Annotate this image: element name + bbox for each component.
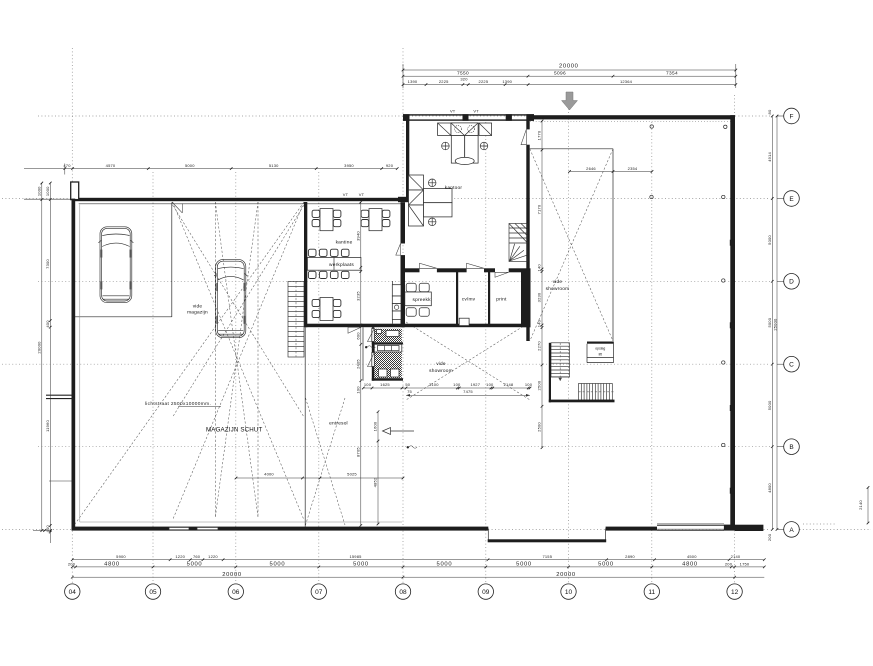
wall kantoor bottom with door openings [402, 268, 531, 272]
svg-text:470: 470 [63, 163, 71, 168]
dimension 2646 2354 kantoor [568, 166, 653, 173]
svg-text:2225: 2225 [439, 79, 449, 84]
svg-text:5000: 5000 [353, 562, 369, 568]
svg-text:4800: 4800 [767, 483, 772, 493]
svg-text:1927: 1927 [470, 382, 480, 387]
svg-text:7300: 7300 [45, 259, 50, 269]
door swing kantoor 2 [467, 263, 484, 268]
bottom dim row 1 small segments [71, 554, 766, 561]
door swing kantoor 1 [420, 263, 437, 268]
dim 75 7475 [406, 389, 530, 397]
svg-text:200: 200 [68, 561, 76, 566]
svg-text:4852: 4852 [373, 477, 378, 487]
bottom dim row 3 20000s [71, 572, 764, 579]
wall spreek right divider [456, 272, 458, 327]
svg-text:15985: 15985 [349, 554, 362, 559]
svg-text:10: 10 [565, 589, 573, 596]
wall showroom bottom east corner [724, 525, 735, 531]
svg-text:MAGAZIJN SCHUT: MAGAZIJN SCHUT [206, 426, 262, 433]
grid line 07 vertical [318, 172, 320, 583]
bottom dim row 2 5000s [68, 561, 766, 568]
svg-text:7354: 7354 [666, 71, 678, 77]
svg-text:werkplaats: werkplaats [329, 262, 354, 268]
vertical dim x378 entresol [373, 410, 380, 525]
svg-text:3100: 3100 [429, 382, 439, 387]
label vide showroom lower [429, 361, 453, 374]
svg-text:A: A [789, 527, 794, 534]
svg-text:vide: vide [436, 361, 446, 367]
toilet door swing 1 [368, 329, 375, 342]
svg-text:4800: 4800 [104, 562, 120, 568]
svg-text:1000: 1000 [37, 186, 42, 196]
svg-text:100: 100 [486, 382, 494, 387]
entresol right thin wall [362, 327, 364, 381]
wall kantoor jog at E [398, 197, 409, 202]
svg-text:4570: 4570 [106, 163, 116, 168]
spiral stair kantoor [509, 224, 528, 262]
kantoor desk cluster top [438, 123, 492, 165]
lichtstraat dashed outline and diagonals [215, 202, 258, 517]
vide magazijn diagonals [173, 202, 304, 520]
svg-text:760: 760 [193, 554, 201, 559]
svg-text:lift: lift [599, 353, 602, 357]
svg-text:VT: VT [359, 192, 365, 197]
svg-text:2270: 2270 [537, 341, 542, 351]
magazijn corner diagonal [75, 202, 304, 524]
svg-text:2500: 2500 [537, 422, 542, 432]
svg-text:showroom: showroom [429, 368, 453, 374]
svg-text:5000: 5000 [598, 562, 614, 568]
wall kantine left [304, 202, 307, 327]
vide magazijn rectangle [75, 203, 172, 318]
vertical dim chain x361 kantine/toilets [356, 201, 363, 527]
right vertical dimension chain [767, 109, 774, 541]
svg-text:VT: VT [473, 109, 479, 114]
svg-text:400: 400 [45, 525, 50, 533]
left 20000 dimension [37, 182, 43, 532]
svg-text:1750: 1750 [740, 561, 750, 566]
svg-text:2354: 2354 [628, 166, 638, 171]
svg-text:5096: 5096 [554, 71, 566, 77]
dim row toilets/showroom widths [362, 382, 533, 390]
wall kantoor left upper [406, 115, 409, 199]
svg-text:F: F [790, 113, 794, 120]
svg-text:C: C [789, 362, 794, 369]
stair magazijn-entresol [288, 282, 304, 358]
dimension row 1390 2225 ... 12364 [402, 77, 737, 86]
svg-text:entresol: entresol [329, 421, 348, 427]
wall showroom top [530, 115, 735, 119]
toilet fixtures upper [377, 330, 400, 337]
grid bubble D [784, 274, 800, 290]
svg-text:5130: 5130 [269, 163, 279, 168]
wall magazijn top [72, 198, 404, 201]
grid line B horizontal [38, 446, 784, 448]
svg-text:140: 140 [537, 264, 542, 272]
svg-text:E: E [789, 196, 794, 203]
wall print left divider [488, 272, 490, 327]
svg-text:50: 50 [405, 382, 410, 387]
svg-text:5000: 5000 [437, 562, 453, 568]
svg-text:12364: 12364 [620, 79, 633, 84]
grid line A horizontal [2, 528, 871, 530]
grid bubble 04 [65, 584, 80, 599]
svg-text:vide: vide [553, 279, 563, 285]
svg-text:2140: 2140 [858, 500, 863, 510]
low left wall jog [46, 395, 74, 481]
car van 2 in magazijn [214, 260, 247, 338]
svg-text:vide: vide [193, 304, 203, 310]
kantine table 1 with chairs [312, 209, 341, 231]
svg-text:kantine: kantine [336, 240, 353, 246]
svg-text:2148: 2148 [504, 382, 514, 387]
svg-text:80: 80 [767, 109, 772, 114]
grid line D horizontal [38, 280, 784, 282]
svg-text:3950: 3950 [344, 163, 354, 168]
svg-text:1390: 1390 [408, 79, 418, 84]
toilet door swing 2 [368, 353, 375, 367]
grid line 10 vertical [568, 95, 570, 583]
svg-text:4914: 4914 [767, 151, 772, 161]
svg-text:5000: 5000 [767, 400, 772, 410]
svg-text:200: 200 [767, 533, 772, 541]
svg-text:2890: 2890 [625, 554, 635, 559]
wall magazijn bottom [72, 527, 404, 531]
bottom left small ticks [33, 529, 52, 532]
svg-text:B: B [789, 444, 793, 451]
svg-text:07: 07 [315, 589, 323, 596]
grid line 09 vertical [485, 122, 487, 583]
magazijn top wall inner line [79, 203, 401, 205]
door swing kantine south [348, 327, 361, 333]
grid bubble A [784, 522, 800, 538]
entresol stair upper (vertical) [551, 343, 570, 381]
grid line 12 vertical [734, 95, 736, 583]
entresol diagonals [306, 398, 346, 525]
grid bubble 08 [395, 584, 410, 599]
svg-text:1625: 1625 [380, 382, 390, 387]
kantine table 2 with chairs [361, 209, 390, 231]
wall showroom bottom west segment [403, 527, 488, 531]
wall extension right of grid 12 [735, 525, 763, 531]
svg-text:2646: 2646 [586, 166, 596, 171]
grid line 11 vertical [651, 122, 653, 583]
svg-text:4500: 4500 [687, 554, 697, 559]
svg-text:print: print [496, 297, 507, 303]
svg-text:5000: 5000 [185, 163, 195, 168]
wall corridor south (kantine/spreek bottom) [304, 324, 531, 328]
svg-text:100: 100 [525, 382, 533, 387]
svg-text:kantoor: kantoor [445, 185, 463, 191]
right 25000 dimension [773, 115, 779, 531]
kantine table 3 with chairs [312, 298, 341, 321]
dimension 20000 top [402, 64, 737, 89]
label vide showroom upper [546, 279, 570, 292]
svg-text:3230: 3230 [537, 292, 542, 302]
svg-text:1000: 1000 [45, 186, 50, 196]
svg-text:11: 11 [648, 589, 655, 596]
svg-text:100: 100 [364, 382, 372, 387]
drain squiggle 1 [365, 346, 375, 349]
stair walls L-shape [549, 343, 615, 403]
toilet counter middle [374, 344, 402, 352]
door swing showroom entry [521, 129, 526, 144]
toilet block walls [372, 327, 403, 381]
wall chunk between print and showroom [521, 272, 531, 328]
grid line 06 vertical [235, 172, 237, 583]
kantoor top wall posts [403, 114, 534, 121]
svg-text:11960: 11960 [45, 420, 50, 432]
entrance block arrow gray [562, 92, 578, 110]
showroom bottom window band [657, 524, 724, 531]
svg-text:5000: 5000 [187, 562, 203, 568]
door swing in magazijn top wall [172, 202, 182, 213]
svg-text:3235: 3235 [356, 291, 361, 301]
werkplaats long table with chairs [307, 249, 361, 278]
svg-text:4000: 4000 [264, 472, 274, 477]
svg-text:5000: 5000 [767, 317, 772, 327]
grid line E horizontal [2, 198, 784, 200]
vide showroom upper diagonals [530, 149, 613, 341]
entrance recess walls [488, 529, 607, 543]
grid line C horizontal [2, 363, 784, 365]
grid bubble B [784, 439, 800, 455]
grid bubble F [784, 108, 800, 124]
svg-text:5000: 5000 [270, 562, 286, 568]
svg-text:2140: 2140 [731, 554, 741, 559]
door swing kantine [396, 244, 401, 256]
grid line 04 vertical [71, 48, 73, 583]
column circles [650, 125, 653, 128]
columns on right wall (squares) [730, 240, 735, 494]
entrance arrow at showroom wall [383, 428, 415, 435]
toilet checker floor lower [374, 352, 402, 378]
svg-text:5025: 5025 [347, 472, 357, 477]
grid bubble 11 [644, 584, 659, 599]
svg-text:320: 320 [460, 77, 468, 82]
dim 4000 5025 entresol [235, 472, 405, 480]
vide showroom upper box [530, 149, 613, 341]
car van 1 in magazijn [98, 227, 133, 303]
svg-text:06: 06 [232, 589, 240, 596]
toilet checker floor upper [374, 329, 402, 343]
svg-text:1600: 1600 [373, 421, 378, 431]
svg-text:5900: 5900 [116, 554, 126, 559]
wall showroom right [730, 115, 735, 530]
svg-text:opslag: opslag [595, 347, 605, 351]
grid line F horizontal [38, 115, 784, 117]
wall showroom bottom mid segment [606, 527, 657, 531]
svg-text:8705: 8705 [356, 447, 361, 457]
vertical dim chain x542 showroom [537, 120, 544, 449]
svg-text:20000: 20000 [559, 64, 579, 70]
wall inner face lines [80, 205, 402, 523]
svg-text:2225: 2225 [479, 79, 489, 84]
svg-text:1390: 1390 [502, 79, 512, 84]
toilet door openings [372, 329, 375, 367]
svg-text:7170: 7170 [537, 204, 542, 214]
svg-text:3940: 3940 [356, 231, 361, 241]
svg-text:showroom: showroom [546, 286, 570, 292]
svg-text:12: 12 [731, 589, 739, 596]
toilet fixtures lower [379, 369, 400, 377]
svg-text:1220: 1220 [208, 554, 218, 559]
grid bubble 12 [727, 584, 742, 599]
svg-text:4800: 4800 [682, 562, 698, 568]
wall kantine/kantoor divider with door opening [401, 202, 406, 327]
dimension row 7550 5096 7354 [402, 71, 737, 78]
thin partition at x392.5 [392, 281, 394, 324]
label lichtstraat with leader [145, 401, 221, 407]
vide showroom lower diagonals [406, 322, 530, 400]
entresol stair lower (horizontal) [579, 384, 615, 401]
svg-text:05: 05 [149, 589, 157, 596]
svg-text:25000: 25000 [773, 318, 778, 331]
cv/mv unit box [459, 318, 469, 325]
drain squiggle 2 [407, 446, 417, 449]
extra dashes right of A above [803, 523, 837, 525]
grid bubble 05 [145, 584, 160, 599]
lift room [587, 342, 614, 363]
canopy line left of stub [24, 198, 71, 200]
svg-text:04: 04 [69, 589, 77, 596]
wall entresol left [304, 327, 306, 526]
grid bubble 07 [311, 584, 326, 599]
kantoor desk cluster left [409, 175, 453, 226]
svg-text:2405: 2405 [356, 359, 361, 369]
window openings in magazijn bottom wall [169, 527, 189, 529]
svg-text:magazijn: magazijn [187, 310, 208, 316]
svg-text:7475: 7475 [463, 389, 473, 394]
svg-text:2500: 2500 [537, 380, 542, 390]
label vide magazijn [187, 304, 208, 316]
spreek table and chairs [405, 283, 432, 316]
svg-text:100: 100 [356, 386, 361, 394]
grid bubble 06 [228, 584, 243, 599]
svg-text:5000: 5000 [767, 235, 772, 245]
dimension row 470 4570 5000 5130 3950 920 [24, 163, 399, 175]
svg-text:cv/mv: cv/mv [462, 297, 476, 303]
svg-text:D: D [789, 279, 794, 286]
svg-text:spreekk: spreekk [412, 297, 431, 303]
svg-text:400: 400 [45, 320, 50, 328]
grid line 08 vertical [402, 48, 404, 583]
svg-text:1770: 1770 [537, 130, 542, 140]
svg-text:1220: 1220 [175, 554, 185, 559]
wall magazijn left [72, 199, 76, 531]
door swing print [495, 272, 509, 277]
svg-text:20000: 20000 [37, 341, 42, 354]
svg-text:5000: 5000 [516, 562, 532, 568]
far right dimension 2140 [858, 486, 870, 524]
svg-text:20000: 20000 [556, 572, 576, 578]
grid bubble 10 [561, 584, 576, 599]
grid bubble E [784, 191, 800, 207]
svg-text:140: 140 [537, 319, 542, 327]
svg-text:7155: 7155 [542, 554, 552, 559]
svg-text:20000: 20000 [222, 572, 242, 578]
grid bubble C [784, 356, 800, 372]
grid bubble 09 [478, 584, 493, 599]
svg-text:100: 100 [453, 382, 461, 387]
wall kantoor right / showroom left with door opening [526, 116, 529, 341]
svg-text:75: 75 [407, 389, 412, 394]
svg-text:200: 200 [725, 561, 733, 566]
cabinet strip next to spreek [392, 285, 401, 320]
svg-text:09: 09 [482, 589, 490, 596]
svg-text:920: 920 [386, 163, 394, 168]
svg-text:VT: VT [450, 109, 456, 114]
svg-text:08: 08 [399, 589, 407, 596]
vide magazijn upper diagonals [173, 205, 304, 417]
left vertical dimension chain [45, 182, 52, 543]
wall kantoor top window band [403, 114, 534, 121]
grid line 05 vertical [152, 172, 154, 583]
svg-text:600: 600 [356, 332, 361, 340]
svg-text:VT: VT [343, 192, 349, 197]
wall corner stub top-left (hollow pier) [71, 182, 79, 200]
